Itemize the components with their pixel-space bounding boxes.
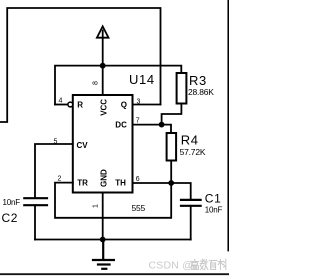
- wire: TR pin2 loop: [55, 183, 171, 218]
- wire: Q output loop, exits left edge at y122: [0, 8, 161, 122]
- svg-text:VCC: VCC: [99, 99, 108, 116]
- svg-text:28.86K: 28.86K: [188, 87, 214, 97]
- wire: Q pin3 horizontal: [133, 104, 161, 106]
- svg-text:57.72K: 57.72K: [180, 147, 206, 157]
- wire: C2 bottom lead: [34, 205, 36, 239]
- watermark glyph jiao: [200, 259, 208, 269]
- svg-text:Q: Q: [121, 101, 127, 110]
- wire: bottom hairline: [0, 273, 229, 275]
- svg-text:3: 3: [137, 99, 141, 106]
- svg-text:R3: R3: [189, 73, 207, 88]
- watermark glyph bai: [209, 260, 216, 269]
- svg-text:R4: R4: [181, 132, 199, 147]
- pin 4 inversion bubble: [68, 102, 73, 107]
- wire: C1 bottom lead: [190, 206, 192, 240]
- capacitor C1: [181, 199, 201, 201]
- svg-text:R: R: [77, 101, 83, 110]
- svg-text:U14: U14: [129, 72, 155, 87]
- svg-text:10nF: 10nF: [3, 198, 21, 207]
- wire: CV pin5 to C2: [35, 144, 73, 197]
- wire: VCC arrow stem: [102, 31, 104, 66]
- svg-text:555: 555: [132, 203, 146, 213]
- svg-text:10nF: 10nF: [205, 206, 223, 215]
- svg-text:C1: C1: [205, 191, 222, 205]
- svg-text:DC: DC: [115, 120, 127, 129]
- svg-text:TH: TH: [115, 179, 126, 188]
- wire: DC pin7 horizontal: [133, 124, 162, 126]
- wire: R3 bottom lead to node: [162, 104, 182, 125]
- svg-text:1: 1: [93, 204, 100, 208]
- svg-text:6: 6: [136, 176, 140, 183]
- wire: VCC rail y65.5: [55, 66, 181, 105]
- svg-text:7: 7: [136, 118, 140, 125]
- power VCC arrow: [97, 26, 109, 37]
- node VCC junction dot: [100, 63, 106, 69]
- watermark glyph ke: [218, 259, 226, 269]
- wire: TH pin6 horizontal: [133, 182, 172, 184]
- resistor R3: [177, 73, 187, 104]
- wire: pin4 reset stub: [55, 104, 68, 106]
- ground: [93, 240, 114, 269]
- wire: R4 top lead: [162, 125, 171, 133]
- op-amp U14 (555 timer IC body): [73, 95, 133, 193]
- svg-text:GND: GND: [99, 169, 108, 187]
- svg-text:CV: CV: [77, 141, 89, 150]
- wire: right border segment: [227, 0, 229, 251]
- resistor R4: [167, 133, 177, 161]
- capacitor C2: [24, 197, 47, 199]
- wire: R4 bottom lead: [170, 161, 172, 184]
- wire: GND pin1 vertical: [102, 193, 104, 240]
- watermark glyph gao: [191, 259, 199, 269]
- svg-text:TR: TR: [77, 179, 88, 188]
- wire: C1 top branch: [171, 183, 191, 199]
- node TH/TR/R4/C1 junction dot: [168, 180, 174, 186]
- node ground junction dot: [100, 237, 106, 243]
- node R3/R4/DC junction dot: [159, 122, 165, 128]
- svg-text:8: 8: [93, 81, 100, 85]
- svg-text:C2: C2: [2, 211, 19, 225]
- wire: pin8 VCC vertical: [102, 66, 104, 95]
- svg-text:2: 2: [58, 176, 62, 183]
- wire: ground rail y239.5: [35, 239, 191, 241]
- svg-text:CSDN @: CSDN @: [149, 260, 194, 272]
- svg-text:4: 4: [59, 98, 63, 105]
